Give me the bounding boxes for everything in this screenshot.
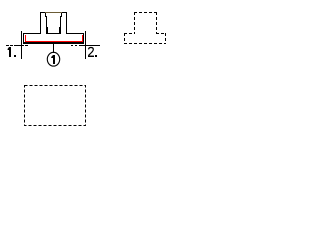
wire: balloon leader line — [53, 42, 55, 53]
wire: phantom plate rectangle (bottom view) — [25, 86, 86, 126]
wire: phantom stem top edge — [134, 12, 157, 14]
wire: flange top edge right of stem — [66, 33, 84, 35]
wire: phantom stem right edge — [156, 12, 158, 34]
wire: groove inner right edge lower — [59, 27, 61, 33]
wire: red weld line left — [25, 35, 27, 42]
wire: phantom flange top edge left — [124, 33, 135, 35]
label edge 2. (vector glyph) — [88, 48, 93, 56]
wire: weld seam top edge (olive) — [45, 12, 62, 14]
label edge 1. (vector glyph) — [8, 47, 16, 57]
wire: groove inner right edge middle — [60, 16, 62, 28]
wire: centerline right dash group — [71, 45, 100, 47]
wire: flange top edge left of stem — [23, 33, 41, 35]
wire: flange bottom edge (2px) — [23, 42, 84, 44]
wire: weld T-joint stem top edge black left segment — [40, 12, 45, 14]
weld bead outline (red U inside flange) — [25, 35, 83, 42]
wire: phantom flange left edge — [124, 33, 126, 44]
wire: red weld line bottom — [25, 41, 83, 43]
phantom T-profile (dashed), second weldment position — [25, 12, 167, 126]
wire: groove inner right edge upper — [61, 13, 63, 17]
wire: stem outer right edge — [66, 12, 68, 34]
wire: phantom flange right edge — [165, 33, 167, 44]
wire: flange left edge — [23, 33, 25, 44]
wire: groove inner left edge upper — [45, 13, 47, 17]
node 1: edge extent line left — [21, 31, 23, 59]
wire: centerline left dash group — [6, 45, 28, 47]
wire: groove inner left edge middle — [46, 16, 48, 28]
weld number balloon text 1 (vector glyph) — [51, 55, 55, 64]
wire: phantom stem left edge — [134, 12, 136, 34]
wire: flange right edge — [83, 33, 85, 44]
node 2: edge extent line right — [85, 31, 87, 59]
wire: groove bottom / flange surface in groove — [46, 33, 61, 35]
wire: stem outer left edge — [40, 12, 42, 34]
wire: groove inner left edge lower — [46, 27, 48, 33]
wire: phantom flange top edge right — [156, 33, 166, 35]
wire: stem top edge black right segment — [62, 12, 67, 14]
wire: phantom flange bottom edge — [124, 43, 166, 45]
wire: red weld line right — [82, 35, 84, 42]
weld number balloon circle — [47, 52, 59, 66]
